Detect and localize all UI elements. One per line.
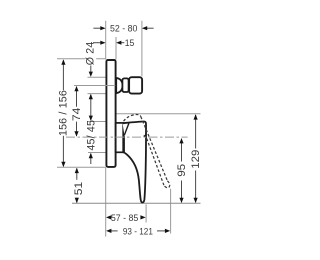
wire: open-handle tip extension line (bottom)	[170, 189, 172, 234]
wire: plate top extension line	[57, 58, 106, 60]
wire: wall plane extension line (top)	[105, 21, 107, 60]
arrow left, dim 93-121	[106, 229, 111, 233]
knob dome	[116, 78, 122, 93]
dimension arrows and shafts	[63, 28, 195, 231]
svg-text:129: 129	[190, 150, 202, 169]
arrow up, dim 74 top	[74, 86, 78, 91]
svg-text:74: 74	[71, 108, 83, 122]
arrow down, dim 156/156 bottom	[61, 162, 65, 167]
dim O24 shaft upper	[90, 66, 92, 73]
dim 156/156 shaft lower	[62, 136, 64, 167]
arrow up, dim 45/45 bottom	[89, 153, 93, 158]
dim 93-121 left tail	[111, 230, 118, 232]
handle head fill	[123, 121, 147, 136]
dim 129 shaft upper	[195, 115, 197, 149]
knob neck ring	[122, 78, 128, 92]
dim 51 shaft lower	[76, 198, 78, 203]
svg-text:51: 51	[73, 182, 85, 196]
handle head underside diagonal	[124, 123, 129, 135]
escutcheon plate (side view)	[106, 60, 115, 167]
wire: handle bottom reference line	[72, 202, 201, 204]
arrow down, dim 129 bottom	[194, 198, 198, 203]
arrow down, dim 95 bottom	[179, 198, 183, 203]
svg-text:156 / 156: 156 / 156	[58, 90, 70, 136]
svg-text:15: 15	[125, 38, 135, 49]
arrow down, dim O24 top	[89, 72, 93, 77]
svg-text:45/ 45: 45/ 45	[85, 120, 97, 151]
wire: knob bottom extension line	[88, 93, 106, 95]
arrow left at knob face, dim 52-80	[142, 26, 147, 30]
handle lever: dashed open position, head top arc	[124, 115, 170, 188]
dim 52-80 left shaft	[93, 27, 101, 29]
wire: raised handle top reference line	[116, 113, 201, 115]
knob cylinder (diverter knob front)	[129, 77, 142, 93]
wire: plate front face extension line	[115, 37, 117, 60]
dim 156/156 shaft upper	[62, 60, 64, 90]
dim 15 left shaft	[93, 42, 101, 44]
arrow up, dim 156/156 top	[61, 59, 65, 64]
handle mount escutcheon	[116, 123, 124, 152]
dim 95 shaft lower	[181, 181, 183, 203]
handle grip blade	[124, 134, 146, 203]
handle lever: dashed open position, front edge	[141, 117, 168, 181]
dim 129 shaft lower	[195, 171, 197, 203]
dim 93-121 right tail	[157, 230, 166, 232]
dim 45/45 double shaft	[90, 95, 92, 120]
arrow left, dim 57-85	[106, 215, 111, 219]
axis line: handle pivot centerline	[66, 136, 188, 138]
arrow up, dim 51 top	[75, 168, 79, 173]
dim 74 shaft upper	[76, 87, 78, 107]
svg-text:95: 95	[176, 164, 188, 177]
svg-text:57 - 85: 57 - 85	[111, 213, 139, 224]
dim 45/45 lower shaft	[90, 154, 92, 165]
svg-text:52 - 80: 52 - 80	[110, 23, 138, 34]
dim 52-80 right shaft	[147, 27, 154, 29]
axis line: knob centerline	[74, 85, 118, 87]
dim 15 right tail	[121, 42, 125, 44]
arrow left at plate face, dim 15	[116, 41, 121, 45]
handle head outline	[123, 121, 146, 136]
svg-text:93 - 121: 93 - 121	[123, 226, 153, 237]
wire: handle front extension line (bottom)	[145, 204, 147, 222]
wire: knob front face extension line	[141, 21, 143, 77]
arrow right at wall line, dim 52-80	[100, 26, 105, 30]
arrow right, dim 57-85	[140, 215, 145, 219]
arrow down, dim 45/45 top	[89, 116, 93, 121]
arrow up, dim O24 bottom	[89, 94, 93, 99]
arrow right, dim 93-121	[165, 229, 170, 233]
wire: handle mount bottom extension line	[88, 152, 106, 154]
handle lever: dashed open position, back edge	[146, 138, 164, 186]
arrow down, dim 74 bottom	[74, 131, 78, 136]
arrow right at wall line, dim 15	[100, 41, 105, 45]
svg-text:Ø 24: Ø 24	[84, 42, 96, 66]
arrow up, dim 95 top	[179, 138, 183, 143]
arrow up, dim 129 top	[194, 114, 198, 119]
arrow down, dim 51 bottom	[75, 198, 79, 203]
handle lever: dashed open position, tip	[164, 181, 170, 188]
wire: wall plane extension line (bottom)	[105, 168, 107, 237]
wire: knob top extension line	[88, 76, 106, 78]
dim 51 shaft upper	[76, 168, 78, 179]
dim 74 shaft lower	[76, 122, 78, 136]
wire: handle head top extension line	[88, 121, 106, 123]
dim 95 shaft upper	[181, 139, 183, 162]
wire: plate bottom extension line	[57, 166, 106, 168]
